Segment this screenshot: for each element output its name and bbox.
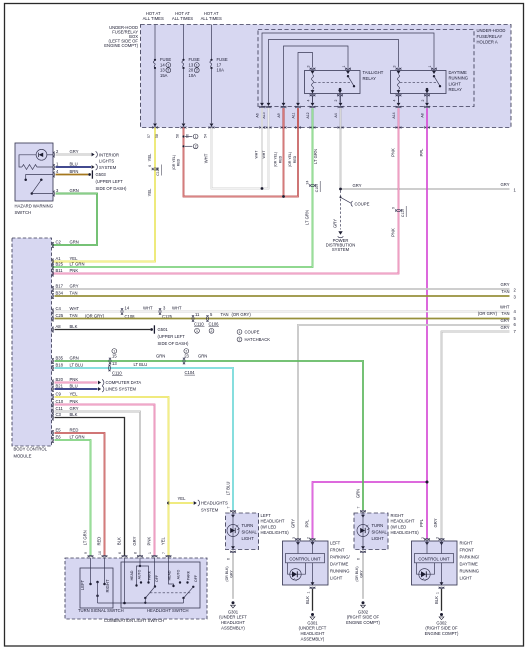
connector C125 pin 3 bbox=[159, 308, 161, 314]
svg-text:GRN: GRN bbox=[70, 239, 79, 244]
svg-text:LEFT: LEFT bbox=[261, 513, 272, 518]
connector C104 pin 23 hatchback bbox=[183, 358, 185, 364]
svg-text:GRY: GRY bbox=[353, 183, 362, 188]
svg-text:13: 13 bbox=[112, 361, 117, 366]
wire C11 GRY to combination light switch pin 8 bbox=[55, 412, 141, 557]
svg-text:LT GRN: LT GRN bbox=[83, 530, 88, 545]
body control module box bbox=[12, 238, 52, 446]
svg-text:TURN SIGNAL SWITCH: TURN SIGNAL SWITCH bbox=[78, 608, 124, 613]
svg-text:BRN: BRN bbox=[70, 169, 79, 174]
svg-text:WHT: WHT bbox=[143, 305, 153, 310]
svg-text:4: 4 bbox=[392, 99, 396, 101]
svg-text:11: 11 bbox=[195, 312, 200, 317]
svg-text:3: 3 bbox=[306, 65, 310, 67]
hazard pin 4 BRN wire to ground G503 bbox=[53, 172, 55, 178]
holder A bottom pins A6 A13 A9 A11 A12 A4 A14 A8 bbox=[260, 103, 264, 106]
svg-text:SIDE OF DASH): SIDE OF DASH) bbox=[96, 186, 128, 191]
svg-text:HAZARD WARNING: HAZARD WARNING bbox=[15, 204, 53, 209]
svg-text:RED: RED bbox=[177, 158, 181, 166]
svg-text:24: 24 bbox=[305, 181, 309, 185]
wire YEL branch to headlights system bbox=[169, 502, 194, 504]
svg-text:G301: G301 bbox=[307, 620, 318, 625]
svg-text:RUNNING: RUNNING bbox=[449, 76, 469, 81]
svg-text:7: 7 bbox=[162, 552, 166, 554]
svg-text:GRY: GRY bbox=[360, 570, 364, 578]
svg-text:C11: C11 bbox=[56, 406, 64, 411]
connector C109 on YEL bbox=[152, 168, 158, 170]
svg-text:C110: C110 bbox=[112, 371, 122, 376]
svg-text:BODY CONTROL: BODY CONTROL bbox=[14, 446, 48, 451]
wire C9 YEL to combination light switch pin 7 bbox=[55, 397, 169, 556]
svg-text:PARK: PARK bbox=[187, 570, 191, 580]
svg-text:B18: B18 bbox=[56, 362, 64, 367]
svg-text:TURN: TURN bbox=[242, 523, 254, 528]
headlight switch bank 2 arm bbox=[192, 586, 194, 588]
svg-text:LIGHT: LIGHT bbox=[460, 576, 473, 581]
left TSL pin 6 exit to ground G301 bbox=[231, 546, 235, 549]
svg-text:TAN: TAN bbox=[501, 311, 509, 316]
svg-text:(OR GRY): (OR GRY) bbox=[232, 312, 252, 317]
wire GRY junction to right edge pin 1 bbox=[341, 188, 510, 190]
svg-text:RIGHT: RIGHT bbox=[460, 541, 473, 546]
wire B21 BLU to computer data lines system bbox=[55, 388, 98, 390]
wire A13 feed to DRL relay pin 3 bbox=[269, 40, 399, 104]
svg-text:PNK: PNK bbox=[147, 537, 152, 546]
wire GRY right edge pin 6 to left control unit pin 3 bbox=[298, 325, 510, 539]
svg-text:1: 1 bbox=[148, 552, 152, 554]
left TSL lamp LED bbox=[232, 514, 234, 550]
svg-text:HEADLIGHT: HEADLIGHT bbox=[391, 519, 415, 524]
hazard switch resistor bbox=[22, 165, 53, 170]
svg-text:GRY: GRY bbox=[70, 406, 79, 411]
wire E5 RED to combination light switch pin 10 bbox=[55, 433, 105, 556]
connector C110 pin 11 coupe bbox=[192, 315, 194, 321]
headlight switch bank 1 contacts bbox=[139, 558, 141, 566]
svg-text:RELAY: RELAY bbox=[449, 87, 463, 92]
svg-text:DAYTIME: DAYTIME bbox=[330, 562, 349, 567]
svg-text:WHT: WHT bbox=[262, 150, 266, 159]
svg-text:GRY: GRY bbox=[333, 219, 338, 228]
svg-text:GRN: GRN bbox=[355, 489, 360, 498]
svg-text:A1: A1 bbox=[56, 256, 62, 261]
svg-text:ASSEMBLY): ASSEMBLY) bbox=[301, 636, 325, 641]
svg-text:DAYTIME: DAYTIME bbox=[460, 562, 479, 567]
svg-text:COUPE: COUPE bbox=[245, 329, 260, 334]
svg-text:54: 54 bbox=[204, 134, 208, 138]
svg-text:RUNNING: RUNNING bbox=[330, 569, 350, 574]
right CU LED bbox=[417, 563, 422, 574]
svg-text:9: 9 bbox=[391, 207, 395, 209]
svg-text:1: 1 bbox=[435, 592, 439, 594]
svg-text:(OR GRY): (OR GRY) bbox=[478, 311, 498, 316]
svg-text:PPL: PPL bbox=[419, 518, 424, 527]
svg-text:BLK: BLK bbox=[117, 537, 122, 545]
svg-text:FRONT: FRONT bbox=[460, 548, 475, 553]
svg-text:GRN: GRN bbox=[156, 354, 165, 359]
svg-text:66: 66 bbox=[185, 134, 189, 138]
svg-text:WHT: WHT bbox=[500, 305, 510, 310]
svg-text:SIGNAL: SIGNAL bbox=[372, 530, 388, 535]
svg-text:COMBINATION LIGHT SWITCH: COMBINATION LIGHT SWITCH bbox=[104, 618, 164, 623]
wire A12 light green segment bbox=[312, 108, 314, 127]
svg-text:2: 2 bbox=[211, 329, 213, 333]
svg-text:1: 1 bbox=[196, 329, 198, 333]
right CU internal block bbox=[426, 541, 428, 554]
svg-text:B25: B25 bbox=[56, 261, 64, 266]
svg-text:ALL TIMES: ALL TIMES bbox=[143, 16, 164, 21]
wire GRY right edge pin 7 to right control unit pin 3 bbox=[442, 332, 510, 539]
svg-text:PNK: PNK bbox=[391, 148, 396, 157]
headlight switch mechanical link bbox=[150, 592, 192, 594]
svg-text:GRY: GRY bbox=[433, 518, 438, 527]
left control unit box bbox=[283, 541, 329, 585]
right CU pin 2 PPL entry bbox=[424, 538, 430, 540]
svg-text:PNK: PNK bbox=[70, 268, 79, 273]
svg-text:TAN: TAN bbox=[70, 313, 78, 318]
ground G302 right CU bbox=[440, 613, 443, 616]
svg-text:TAN: TAN bbox=[70, 290, 78, 295]
svg-text:C25: C25 bbox=[56, 313, 64, 318]
wire RED fuse2 to junction A9/A11 bbox=[184, 108, 299, 196]
wire LT GRN A12 to BCM B25 bbox=[52, 128, 313, 268]
junction dot gray bbox=[339, 188, 342, 191]
relay coil and contacts daytime running light relay bbox=[391, 71, 447, 94]
svg-text:57: 57 bbox=[147, 134, 151, 138]
wire A13 white segment bbox=[268, 108, 270, 127]
right CU pin 3 GRY entry bbox=[439, 538, 445, 540]
svg-text:PPL: PPL bbox=[305, 519, 310, 528]
svg-text:RIGHT: RIGHT bbox=[105, 579, 110, 592]
svg-text:G302: G302 bbox=[358, 609, 369, 614]
fuse 17 10A bbox=[211, 25, 213, 60]
svg-text:3: 3 bbox=[292, 537, 296, 539]
svg-text:BLK: BLK bbox=[434, 596, 439, 604]
svg-text:2: 2 bbox=[195, 145, 197, 149]
svg-text:LEFT: LEFT bbox=[330, 541, 341, 546]
svg-text:SIDE OF DASH): SIDE OF DASH) bbox=[158, 341, 190, 346]
right TSL lamp LED bbox=[362, 514, 364, 550]
svg-text:23: 23 bbox=[184, 354, 189, 359]
svg-text:RED: RED bbox=[97, 537, 102, 546]
wire B18 LT BLU to left turn signal light bbox=[55, 368, 234, 510]
svg-text:BLU: BLU bbox=[70, 161, 78, 166]
wire A8 BLK to ground G501 bbox=[55, 329, 151, 331]
svg-text:ALL TIMES: ALL TIMES bbox=[201, 16, 222, 21]
hazard warning switch box bbox=[15, 143, 53, 201]
svg-text:TAN: TAN bbox=[221, 312, 229, 317]
svg-text:HEADLIGHT: HEADLIGHT bbox=[221, 620, 245, 625]
left CU internal block bbox=[297, 541, 299, 554]
svg-text:RUNNING: RUNNING bbox=[460, 569, 480, 574]
svg-text:G501: G501 bbox=[158, 327, 169, 332]
svg-text:C4: C4 bbox=[56, 306, 62, 311]
svg-text:HOLDER A: HOLDER A bbox=[477, 40, 498, 45]
svg-text:WHT: WHT bbox=[203, 153, 208, 163]
svg-text:PNK: PNK bbox=[70, 399, 79, 404]
svg-text:BLK: BLK bbox=[305, 596, 310, 604]
svg-text:SWITCH: SWITCH bbox=[15, 210, 32, 215]
wire PPL splice to left control unit pin 2 bbox=[313, 482, 428, 539]
svg-text:GRY: GRY bbox=[501, 318, 510, 323]
svg-text:4: 4 bbox=[306, 99, 310, 101]
connector C109 on LT GRN bbox=[309, 184, 315, 186]
ground G301 left TSL bbox=[232, 601, 235, 604]
svg-text:LT GRN: LT GRN bbox=[313, 149, 318, 164]
svg-text:B35: B35 bbox=[56, 355, 64, 360]
svg-text:(W/ LED: (W/ LED bbox=[391, 524, 407, 529]
svg-text:C3: C3 bbox=[56, 412, 62, 417]
svg-text:COMPUTER DATA: COMPUTER DATA bbox=[106, 380, 142, 385]
svg-text:A12: A12 bbox=[306, 112, 310, 118]
svg-text:A9: A9 bbox=[277, 113, 281, 117]
svg-text:RED: RED bbox=[278, 155, 282, 163]
svg-text:C119: C119 bbox=[401, 209, 405, 217]
hazard switch contacts and arm bbox=[26, 175, 53, 179]
svg-text:(OR YEL): (OR YEL) bbox=[172, 155, 176, 170]
svg-text:9: 9 bbox=[84, 552, 88, 554]
left CU LED bbox=[288, 563, 293, 574]
wire C10 PNK to combination light switch pin 1 bbox=[55, 405, 155, 557]
svg-text:1: 1 bbox=[167, 63, 169, 67]
svg-text:3: 3 bbox=[435, 537, 439, 539]
svg-text:TAILLIGHT: TAILLIGHT bbox=[363, 70, 384, 75]
turn signal switch contacts bbox=[90, 558, 92, 583]
svg-text:(OR BLK): (OR BLK) bbox=[355, 566, 359, 581]
svg-text:(W/ LED: (W/ LED bbox=[261, 524, 277, 529]
wire A6 feed to DRL relay pin 1 bbox=[262, 33, 434, 103]
wire A14 pink segment bbox=[398, 108, 400, 127]
hazard switch internal wiring lamp loop bbox=[19, 155, 36, 167]
hazard pin 1 BLU wire to interior lights system bbox=[53, 164, 55, 170]
ground G503 bbox=[88, 173, 91, 176]
svg-text:2: 2 bbox=[421, 537, 425, 539]
svg-text:1: 1 bbox=[239, 330, 241, 334]
svg-text:RED: RED bbox=[293, 155, 297, 163]
svg-text:7: 7 bbox=[357, 506, 361, 508]
svg-text:HEADLIGHT: HEADLIGHT bbox=[301, 631, 325, 636]
right control unit box bbox=[412, 541, 458, 585]
svg-text:CONTROL UNIT: CONTROL UNIT bbox=[418, 557, 450, 562]
svg-text:10: 10 bbox=[98, 551, 102, 555]
wire PPL splice to right control unit pin 2 bbox=[426, 482, 428, 539]
wire E6 LT GRN to combination light switch pin 9 bbox=[55, 440, 91, 556]
svg-text:YEL: YEL bbox=[161, 536, 166, 545]
wire A6 white segment bbox=[261, 108, 263, 127]
right TSL pin 7 entry bbox=[360, 510, 366, 512]
right TSL pin 6 exit to ground G302 bbox=[361, 546, 365, 549]
svg-text:PARKING/: PARKING/ bbox=[460, 555, 481, 560]
svg-text:HEAD: HEAD bbox=[168, 570, 172, 580]
svg-text:WHT: WHT bbox=[172, 305, 182, 310]
wire C25 TAN to right edge pin 5 bbox=[55, 318, 510, 320]
wire PNK A14 to BCM B11 bbox=[52, 128, 399, 274]
svg-text:A11: A11 bbox=[292, 112, 296, 118]
svg-text:3: 3 bbox=[392, 65, 396, 67]
coupe variant callout bbox=[340, 196, 342, 198]
svg-text:2: 2 bbox=[421, 99, 425, 101]
svg-text:1: 1 bbox=[195, 135, 197, 139]
svg-text:G301: G301 bbox=[228, 609, 239, 614]
combination switch pin labels bbox=[88, 555, 94, 557]
svg-text:E6: E6 bbox=[56, 434, 62, 439]
junction dot purple bbox=[426, 481, 429, 484]
BCM pin brackets and labels bbox=[52, 242, 54, 248]
svg-text:(OR YEL): (OR YEL) bbox=[288, 152, 292, 167]
svg-text:LT GRN: LT GRN bbox=[70, 434, 85, 439]
svg-text:YEL: YEL bbox=[70, 256, 79, 261]
svg-text:(UPPER LEFT: (UPPER LEFT bbox=[158, 334, 186, 339]
taillight relay pins 3 and 1 bbox=[310, 68, 316, 70]
taillight relay pins 4 and 2 bbox=[311, 90, 315, 93]
svg-text:B20: B20 bbox=[56, 377, 64, 382]
connector pin 15 coupe on GRN bbox=[109, 358, 111, 364]
svg-text:GRY: GRY bbox=[70, 283, 79, 288]
svg-text:PARKING/: PARKING/ bbox=[330, 555, 351, 560]
svg-text:GRN: GRN bbox=[70, 188, 79, 193]
svg-text:C110: C110 bbox=[194, 321, 204, 326]
svg-text:LT GRN: LT GRN bbox=[70, 261, 85, 266]
junction dot red bbox=[282, 195, 285, 198]
svg-text:HEADLIGHT: HEADLIGHT bbox=[261, 519, 285, 524]
svg-text:1: 1 bbox=[342, 65, 346, 67]
svg-text:LT BLU: LT BLU bbox=[225, 482, 230, 496]
wire WHT fuse3 to A6 A13 bbox=[212, 108, 269, 188]
wire A9 feed to taillight relay pin 1 bbox=[284, 46, 349, 103]
svg-text:ENGINE COMPT): ENGINE COMPT) bbox=[346, 620, 380, 625]
svg-text:B11: B11 bbox=[56, 268, 64, 273]
svg-text:CONTROL UNIT: CONTROL UNIT bbox=[289, 557, 321, 562]
svg-text:GRN: GRN bbox=[198, 354, 207, 359]
svg-text:LIGHT: LIGHT bbox=[242, 536, 255, 541]
svg-text:PARK: PARK bbox=[148, 570, 152, 580]
hazard pin 3 GRN wire to BCM C2 bbox=[53, 191, 55, 197]
svg-text:LT GRN: LT GRN bbox=[304, 210, 309, 225]
svg-text:10A: 10A bbox=[217, 68, 225, 73]
svg-text:1: 1 bbox=[306, 591, 310, 593]
svg-text:ENGINE COMPT): ENGINE COMPT) bbox=[425, 631, 459, 636]
svg-text:WHT: WHT bbox=[255, 150, 259, 159]
left TSL pin 7 entry bbox=[230, 510, 236, 512]
wire A4 gray segment bbox=[340, 108, 342, 127]
svg-text:MODULE: MODULE bbox=[14, 453, 32, 458]
svg-text:C106: C106 bbox=[209, 321, 220, 326]
svg-text:(UNDER LEFT: (UNDER LEFT bbox=[219, 615, 247, 620]
svg-text:OFF: OFF bbox=[194, 575, 198, 582]
svg-text:PPL: PPL bbox=[419, 148, 424, 157]
svg-text:G302: G302 bbox=[436, 620, 447, 625]
svg-text:HEADLIGHTS): HEADLIGHTS) bbox=[261, 530, 290, 535]
combination light switch box bbox=[65, 558, 207, 619]
svg-text:LT BLU: LT BLU bbox=[134, 362, 148, 367]
fuse 13/20 10A bbox=[183, 25, 185, 60]
svg-text:PNK: PNK bbox=[70, 377, 79, 382]
svg-text:PNK: PNK bbox=[391, 228, 396, 237]
svg-text:GRY: GRY bbox=[501, 325, 510, 330]
svg-text:SYSTEM: SYSTEM bbox=[332, 247, 350, 252]
svg-text:LIGHTS: LIGHTS bbox=[99, 159, 114, 164]
hazard pin 2 GRY wire to interior lights system bbox=[53, 152, 55, 158]
svg-text:A14: A14 bbox=[392, 112, 396, 118]
svg-text:BLK: BLK bbox=[70, 412, 78, 417]
svg-text:GRY: GRY bbox=[290, 519, 295, 528]
svg-text:FRONT: FRONT bbox=[330, 548, 345, 553]
wire B20 PNK to computer data lines system bbox=[55, 382, 98, 384]
svg-text:LIGHT: LIGHT bbox=[330, 576, 343, 581]
svg-text:A6: A6 bbox=[256, 113, 260, 117]
svg-text:15: 15 bbox=[112, 354, 117, 359]
svg-text:6: 6 bbox=[118, 552, 122, 554]
switch common ground bus bbox=[98, 602, 184, 604]
svg-text:COUPE: COUPE bbox=[355, 201, 370, 206]
legend coupe hatchback bbox=[237, 330, 242, 335]
svg-text:GRY: GRY bbox=[230, 570, 234, 578]
svg-text:7: 7 bbox=[227, 506, 231, 508]
svg-text:YEL: YEL bbox=[70, 391, 79, 396]
DRL relay pins 3 and 1 bbox=[396, 68, 402, 70]
svg-text:YEL: YEL bbox=[178, 496, 187, 501]
svg-text:B17: B17 bbox=[56, 283, 64, 288]
svg-text:A8: A8 bbox=[421, 113, 425, 117]
svg-text:SYSTEM: SYSTEM bbox=[201, 508, 219, 513]
wire GRY A4 down to junction bbox=[340, 128, 342, 190]
svg-text:RELAY: RELAY bbox=[363, 76, 377, 81]
relay coil and contacts taillight relay bbox=[305, 71, 361, 94]
svg-text:SIGNAL: SIGNAL bbox=[242, 530, 258, 535]
right CU pin 1 BLK to ground G302 bbox=[440, 582, 444, 585]
svg-text:RIGHT: RIGHT bbox=[391, 513, 404, 518]
svg-text:B34: B34 bbox=[56, 290, 64, 295]
svg-text:TURN: TURN bbox=[372, 523, 384, 528]
wire PPL A8 down to splice bbox=[426, 128, 428, 483]
svg-text:BLK: BLK bbox=[70, 324, 78, 329]
svg-text:6: 6 bbox=[227, 558, 231, 560]
svg-text:2: 2 bbox=[167, 68, 169, 72]
svg-text:HEADLIGHTS: HEADLIGHTS bbox=[201, 501, 228, 506]
svg-text:FUSE/RELAY: FUSE/RELAY bbox=[477, 34, 503, 39]
connector C119 on PNK bbox=[395, 209, 401, 211]
svg-text:1: 1 bbox=[196, 63, 198, 67]
svg-text:HEAD: HEAD bbox=[130, 570, 134, 580]
svg-text:YEL: YEL bbox=[147, 153, 152, 162]
svg-text:2: 2 bbox=[196, 68, 198, 72]
wire YEL fuse1 to BCM A1 bbox=[52, 128, 155, 262]
under-hood fuse/relay holder A enclosure bbox=[258, 30, 474, 107]
wire A11 red segment bbox=[297, 108, 299, 127]
svg-text:A4: A4 bbox=[334, 113, 338, 117]
svg-text:58: 58 bbox=[176, 134, 180, 138]
ground G301 left CU bbox=[311, 613, 314, 616]
svg-text:OFF: OFF bbox=[155, 575, 159, 582]
connector C108 pin 14 bbox=[121, 308, 123, 314]
left turn signal light box bbox=[226, 513, 259, 550]
junction dot yellow bbox=[167, 502, 170, 505]
svg-text:LIGHT: LIGHT bbox=[449, 81, 462, 86]
turn signal switch box bbox=[80, 568, 113, 608]
svg-text:GRY: GRY bbox=[132, 536, 137, 545]
headlight switch box bbox=[121, 562, 200, 608]
svg-text:AUTO: AUTO bbox=[176, 569, 180, 579]
headlight switch bank 1 arm bbox=[154, 585, 156, 587]
svg-text:(RIGHT SIDE OF: (RIGHT SIDE OF bbox=[425, 626, 458, 631]
connector C106 pin 5 hatchback bbox=[206, 315, 208, 321]
svg-text:G503: G503 bbox=[96, 172, 107, 177]
svg-text:14: 14 bbox=[125, 305, 130, 310]
svg-text:GRY: GRY bbox=[70, 149, 79, 154]
svg-text:C109: C109 bbox=[315, 184, 319, 192]
svg-text:AUTO: AUTO bbox=[138, 569, 142, 579]
headlight switch bank 2 contacts bbox=[169, 556, 174, 585]
variant callouts 1 2 on red wire bbox=[182, 135, 184, 137]
